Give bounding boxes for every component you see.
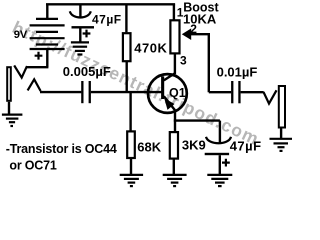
wire collector (164, 54, 175, 80)
svg-text:470K: 470K (134, 41, 167, 56)
svg-text:3K9: 3K9 (182, 138, 206, 153)
svg-text:47µF: 47µF (230, 139, 262, 154)
input jack J1 sleeve (7, 67, 11, 101)
wire jack sleeve to ground (8, 102, 10, 114)
capacitor C4 0.01uF (231, 81, 241, 103)
wire C4 to output jack (241, 91, 264, 93)
wire emitter branch (174, 119, 220, 121)
wire wiper to C4 (209, 33, 231, 92)
output jack J2 tip contact (264, 90, 277, 103)
svg-text:0.005µF: 0.005µF (63, 64, 111, 79)
svg-text:or OC71: or OC71 (9, 159, 56, 173)
svg-text:Q1: Q1 (169, 86, 186, 100)
ground (R3) (163, 175, 187, 186)
battery + mark (35, 52, 43, 60)
potentiometer VR1 wiper arrow (182, 28, 191, 40)
ground (J2) (270, 139, 293, 151)
capacitor C2 47uF (70, 4, 94, 42)
input jack J1 tip contact (14, 65, 27, 77)
wire battery to input jack (27, 66, 49, 68)
svg-text:9V: 9V (14, 29, 28, 41)
svg-text:-Transistor is OC44: -Transistor is OC44 (6, 142, 117, 156)
resistor R3 3K9 (170, 132, 178, 175)
C2 + mark (83, 30, 91, 38)
capacitor C1 0.005uF (81, 81, 91, 103)
battery BT1 (30, 4, 65, 67)
svg-text:3: 3 (180, 54, 187, 68)
wire wiper (191, 33, 210, 35)
wire C1 to base (91, 91, 162, 93)
C3 + mark (222, 159, 230, 167)
output jack J2 sleeve (279, 86, 285, 128)
svg-text:68K: 68K (137, 139, 161, 154)
potentiometer VR1 body (170, 20, 179, 53)
capacitor C3 47uF (205, 121, 231, 175)
ground (input jack) (2, 115, 23, 126)
ground (C2) (71, 42, 89, 54)
potentiometer VR1 pin1 wire (173, 4, 175, 20)
wire input signal (40, 91, 81, 93)
resistor R1 470K (123, 4, 131, 93)
resistor R2 68K (127, 92, 135, 175)
wire emitter down (174, 110, 176, 132)
ground (R2) (120, 175, 143, 186)
wire J2 sleeve to ground (280, 128, 282, 138)
svg-text:47µF: 47µF (92, 13, 122, 27)
ground (C3) (207, 175, 232, 186)
svg-text:2: 2 (190, 22, 197, 36)
wire top rail (46, 3, 175, 5)
transistor Q1 (148, 74, 187, 113)
svg-text:0.01µF: 0.01µF (217, 65, 258, 80)
svg-text:10KA: 10KA (183, 11, 217, 26)
input jack J1 ring contact (28, 79, 41, 91)
